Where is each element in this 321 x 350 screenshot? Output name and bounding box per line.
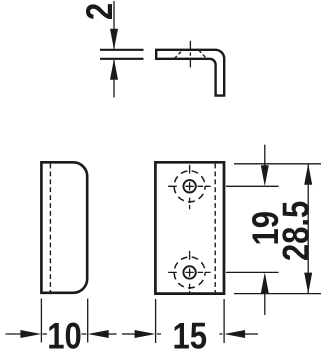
dimension 10: right extension line [87, 299, 89, 343]
dimension 10: dimension line between extensions [43, 333, 87, 335]
dimension 28.5: lower arrowhead [304, 273, 312, 294]
dimension 15: right extension line [223, 299, 225, 343]
dimension 10: left tail [6, 333, 24, 335]
extension line: bottom hole center [226, 271, 279, 273]
dimension 2: upper arrowhead [110, 29, 118, 50]
L-profile side view outline [156, 50, 224, 96]
svg-text:2: 2 [80, 3, 121, 20]
dimension 15: left arrowhead [135, 330, 156, 338]
dimension 2: lower dimension line tail [113, 60, 115, 98]
front view (15 x 28.5) outline [155, 162, 224, 293]
bottom hole: vertical centerline [189, 251, 191, 294]
dimension 15: left extension line [155, 299, 157, 343]
dimension 15: right tail [242, 333, 258, 335]
bottom hole: horizontal centerline [168, 271, 211, 273]
side view (10 mm) outline [41, 162, 87, 292]
extension line: top edge [234, 163, 321, 165]
dimension 10: text mask [47, 318, 82, 349]
top hole: vertical centerline [189, 165, 191, 210]
extension line: top hole center [226, 185, 279, 187]
front view hidden bend line [214, 164, 216, 293]
dimension 15: left tail [122, 333, 138, 335]
dimension 28.5: dimension line [307, 164, 309, 294]
dimension 10: left extension line [40, 299, 42, 343]
dimension 10: right tail [106, 333, 117, 335]
bottom hole: countersink dashed circle [174, 257, 205, 288]
sheet thickness detail: upper line [100, 49, 144, 51]
dimension 19: lower tail [264, 290, 266, 315]
top hole: center cross [185, 182, 193, 190]
L-profile hole centerline [189, 41, 191, 68]
svg-text:15: 15 [173, 316, 208, 350]
side view hidden bend line [49, 164, 51, 292]
extension line: bottom edge [234, 293, 321, 295]
dimension 2: lower arrowhead [110, 59, 118, 80]
top hole: screw hole circle [183, 180, 195, 192]
dimension 28.5: upper arrowhead [304, 164, 312, 185]
svg-text:10: 10 [47, 316, 82, 350]
dimension 19: lower arrowhead [261, 272, 269, 293]
dimension 15: dimension line between extensions [157, 333, 223, 335]
dimension 10: left arrowhead [20, 330, 41, 338]
dimension 10: right arrowhead [88, 330, 109, 338]
L-profile countersink hidden line right [199, 50, 207, 58]
dimension 19: upper tail [264, 145, 266, 169]
dimension 15: right arrowhead [224, 330, 245, 338]
svg-text:28.5: 28.5 [276, 201, 317, 261]
top hole: horizontal centerline [168, 185, 211, 187]
L-profile countersink hidden line left [174, 50, 182, 58]
bottom hole: screw hole circle [183, 266, 195, 278]
dimension 15: text mask [161, 318, 219, 349]
dimension 19: upper arrowhead [261, 165, 269, 186]
dimension 2: upper dimension line tail [113, 1, 115, 49]
bottom hole: center cross [185, 268, 193, 276]
sheet thickness detail: lower line [100, 58, 144, 60]
top hole: countersink dashed circle [174, 171, 205, 202]
